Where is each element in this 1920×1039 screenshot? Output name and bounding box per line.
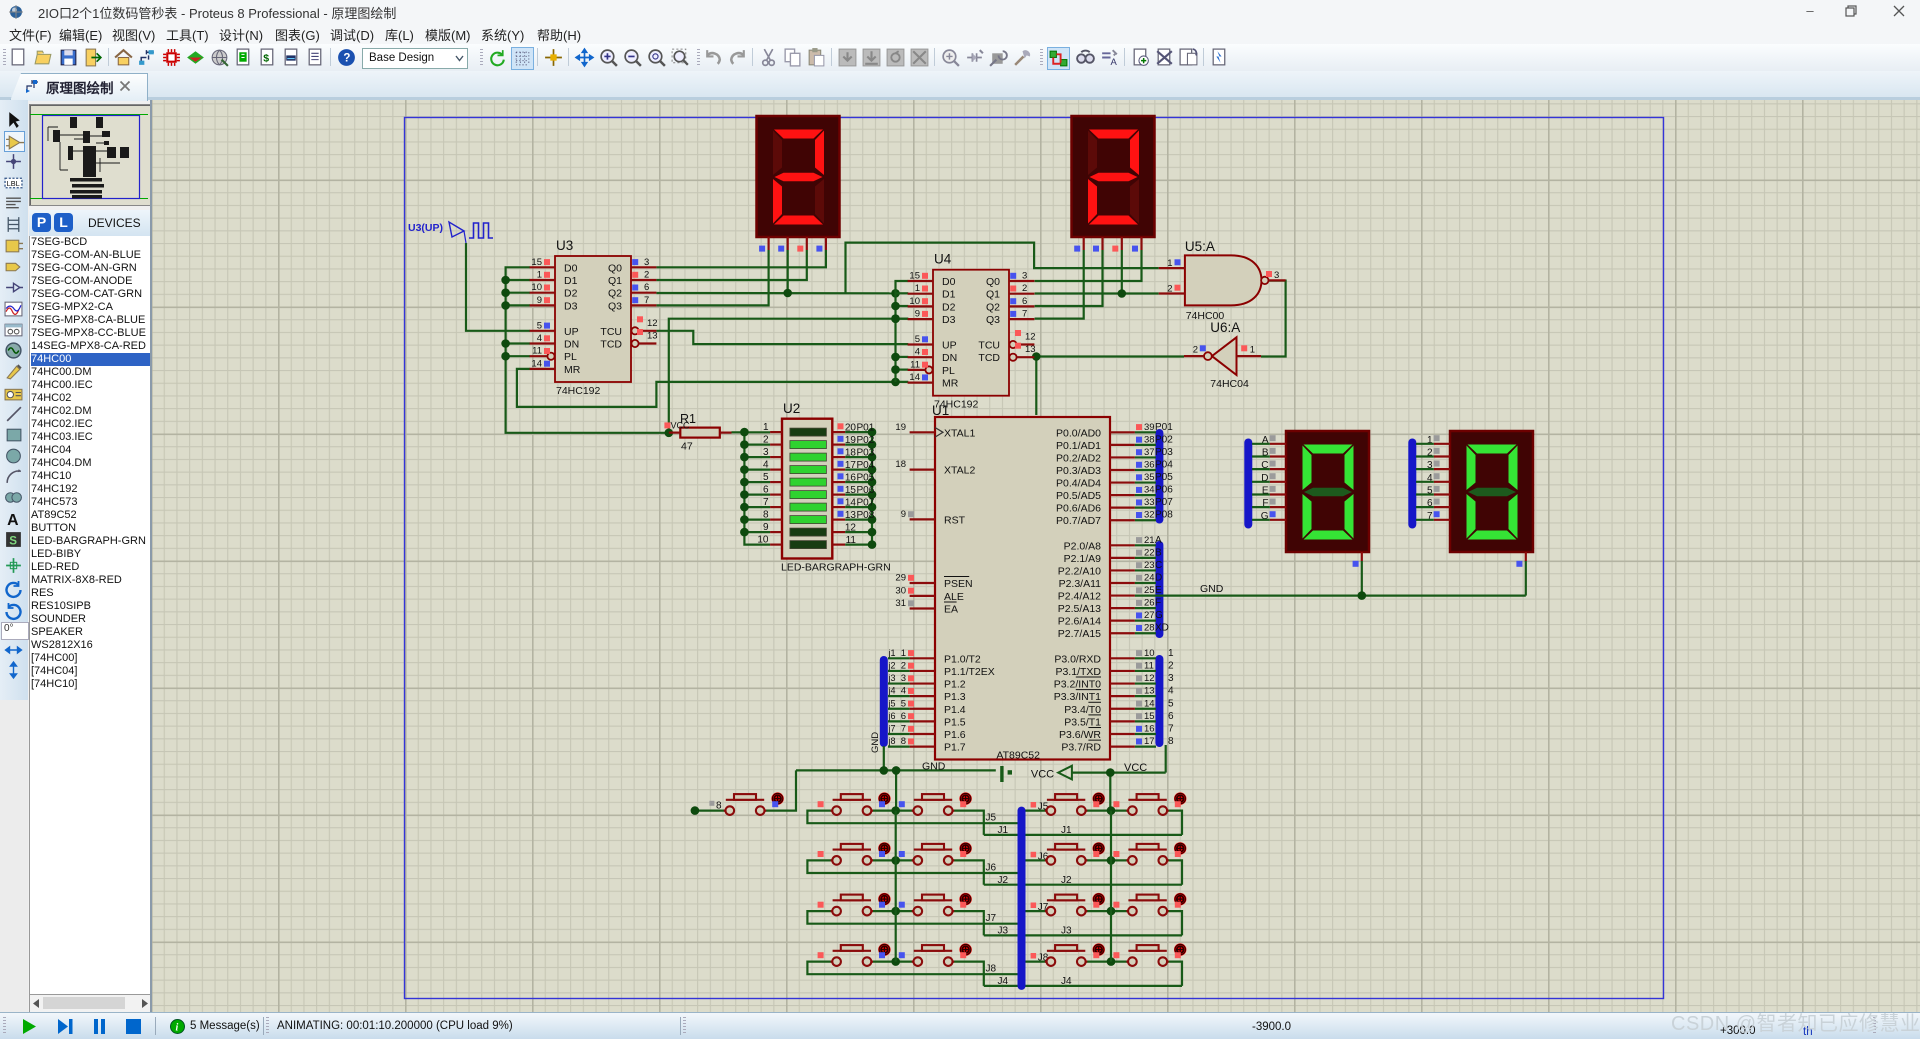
svg-text:E: E (1155, 585, 1162, 596)
wire (896, 281, 909, 382)
svg-text:C: C (1155, 560, 1162, 571)
svg-text:P07: P07 (857, 498, 875, 509)
svg-text:74HC192: 74HC192 (556, 385, 601, 397)
wire (695, 809, 726, 811)
svg-text:P2.0/A8: P2.0/A8 (1064, 540, 1102, 552)
svg-text:7: 7 (901, 724, 906, 735)
wire (984, 985, 1182, 987)
wire (807, 811, 1018, 824)
svg-text:EA: EA (944, 604, 958, 616)
svg-text:12: 12 (1144, 673, 1155, 684)
node labels P01-P08 (838, 423, 875, 546)
svg-text:14: 14 (909, 372, 920, 383)
svg-text:2: 2 (1167, 284, 1172, 295)
junction (1107, 856, 1116, 865)
7-segment display red 1 (757, 116, 840, 252)
wire (764, 746, 996, 811)
svg-text:D: D (1155, 572, 1162, 583)
svg-text:J3: J3 (1061, 926, 1072, 937)
svg-text:8: 8 (716, 801, 722, 812)
svg-text:4: 4 (763, 460, 769, 471)
power flag VCC (R1) (664, 421, 690, 431)
svg-text:J4: J4 (1061, 976, 1072, 987)
7-segment display green 2 (1434, 431, 1533, 567)
svg-text:35: 35 (1144, 472, 1155, 483)
svg-text:TCU: TCU (600, 326, 622, 338)
wire (656, 250, 806, 280)
wire (732, 432, 771, 544)
svg-text:j8: j8 (888, 736, 896, 746)
svg-text:D3: D3 (564, 300, 578, 312)
wire (517, 369, 908, 407)
svg-text:19: 19 (845, 435, 857, 446)
svg-text:P01: P01 (1155, 422, 1173, 433)
svg-text:3: 3 (1274, 270, 1279, 281)
push button (1113, 792, 1186, 815)
svg-text:A: A (1155, 535, 1162, 546)
wire (656, 331, 908, 344)
net label J8 (986, 964, 997, 975)
sheet border (405, 118, 1664, 999)
svg-text:GND: GND (1200, 583, 1224, 595)
node labels 1-7 (1427, 435, 1440, 522)
svg-text:U1: U1 (932, 403, 949, 418)
wire (1035, 357, 1184, 416)
svg-text:J7: J7 (986, 913, 997, 924)
junction dots (868, 428, 877, 549)
junction (691, 806, 700, 815)
wire (1168, 811, 1182, 835)
svg-text:12: 12 (1025, 332, 1036, 343)
svg-text:27: 27 (1144, 610, 1155, 621)
svg-text:13: 13 (1025, 344, 1036, 355)
svg-text:29: 29 (895, 573, 906, 584)
svg-text:1: 1 (1168, 648, 1174, 659)
net label J7 (986, 913, 997, 924)
svg-text:5: 5 (1168, 698, 1174, 709)
svg-text:UP: UP (942, 340, 957, 352)
svg-text:1: 1 (901, 648, 906, 659)
svg-text:38: 38 (1144, 434, 1155, 445)
svg-text:j1: j1 (888, 648, 896, 658)
svg-text:37: 37 (1144, 447, 1155, 458)
svg-text:14: 14 (531, 358, 542, 369)
generator U3(UP) (408, 222, 493, 243)
svg-text:7: 7 (1022, 309, 1027, 320)
svg-text:1: 1 (763, 422, 769, 433)
wire (1035, 250, 1103, 306)
svg-text:30: 30 (895, 585, 906, 596)
svg-text:P0.3/AD3: P0.3/AD3 (1056, 465, 1101, 477)
wire (1135, 561, 1526, 596)
svg-text:D0: D0 (942, 276, 956, 288)
mcu U1 AT89C52 (888, 403, 1143, 762)
wire (656, 250, 895, 293)
svg-text:F: F (1155, 598, 1161, 609)
net label J6 (1031, 851, 1049, 862)
svg-text:P03: P03 (857, 448, 875, 459)
svg-text:P3.2/INT0: P3.2/INT0 (1054, 679, 1101, 691)
svg-text:P2.3/A11: P2.3/A11 (1059, 578, 1102, 590)
wire (984, 884, 1182, 886)
svg-text:j5: j5 (888, 698, 896, 708)
svg-text:P0.4/AD4: P0.4/AD4 (1056, 478, 1101, 490)
wire (1168, 911, 1182, 935)
svg-text:G: G (1155, 610, 1163, 621)
counter U3 (530, 238, 658, 397)
svg-text:j2: j2 (888, 660, 896, 670)
wire (1086, 809, 1128, 811)
push button (1045, 842, 1105, 865)
svg-text:5: 5 (537, 320, 542, 331)
7-segment display red 2 (1072, 116, 1155, 252)
svg-text:P04: P04 (1155, 459, 1173, 470)
svg-text:P1.7: P1.7 (944, 742, 966, 754)
wire (1086, 960, 1128, 962)
svg-text:U3(UP): U3(UP) (408, 222, 443, 234)
svg-text:J4: J4 (998, 976, 1009, 987)
svg-text:D2: D2 (564, 288, 578, 300)
svg-text:Q1: Q1 (608, 275, 622, 287)
svg-text:1: 1 (1250, 345, 1255, 356)
svg-text:j4: j4 (888, 686, 896, 696)
net label GND (922, 761, 946, 773)
net label J3 (998, 926, 1073, 937)
svg-text:AT89C52: AT89C52 (996, 750, 1040, 762)
svg-text:9: 9 (537, 295, 542, 306)
svg-text:15: 15 (845, 485, 857, 496)
svg-text:2: 2 (1193, 345, 1198, 356)
junction (665, 314, 900, 437)
svg-text:J6: J6 (986, 862, 997, 873)
svg-text:GND: GND (922, 761, 946, 773)
svg-text:j7: j7 (888, 724, 896, 734)
svg-text:28: 28 (1144, 623, 1155, 634)
net label J8 (1031, 953, 1049, 964)
svg-text:2: 2 (763, 435, 769, 446)
svg-text:P3.1/TXD: P3.1/TXD (1055, 666, 1101, 678)
junction dots (740, 428, 749, 537)
push button (1113, 943, 1186, 966)
svg-text:6: 6 (1168, 711, 1174, 722)
svg-text:XD: XD (1155, 623, 1169, 634)
net label VCC (1124, 762, 1147, 774)
svg-text:17: 17 (845, 460, 857, 471)
svg-text:J5: J5 (986, 813, 997, 824)
wire (953, 962, 984, 986)
push button (899, 842, 972, 865)
wire (1025, 910, 1047, 912)
svg-text:10: 10 (1144, 648, 1155, 659)
svg-text:Q2: Q2 (608, 288, 622, 300)
svg-text:i: i (176, 1023, 179, 1034)
svg-text:13: 13 (845, 510, 857, 521)
wire (845, 432, 872, 544)
svg-text:XTAL1: XTAL1 (944, 427, 975, 439)
svg-text:B: B (1155, 547, 1162, 558)
svg-text:LED-BARGRAPH-GRN: LED-BARGRAPH-GRN (781, 562, 891, 574)
svg-text:D2: D2 (942, 301, 956, 313)
svg-text:MR: MR (942, 378, 959, 390)
push button (818, 893, 891, 916)
svg-text:11: 11 (846, 535, 857, 546)
svg-text:P0.7/AD7: P0.7/AD7 (1056, 515, 1101, 527)
junction (891, 907, 900, 916)
junction (891, 957, 900, 966)
svg-text:P08: P08 (857, 510, 875, 521)
wire (1135, 545, 1156, 633)
svg-text:PL: PL (942, 365, 955, 377)
svg-text:j6: j6 (888, 711, 896, 721)
svg-text:MR: MR (564, 364, 581, 376)
push button (899, 943, 972, 966)
junction (1358, 591, 1367, 600)
inverter U6:A (1184, 320, 1261, 390)
svg-text:VCC: VCC (1031, 769, 1054, 781)
net label J2 (998, 875, 1073, 886)
svg-text:P05: P05 (1155, 472, 1173, 483)
push button (899, 792, 972, 815)
svg-text:Q3: Q3 (986, 314, 1000, 326)
svg-text:P3.5/T1: P3.5/T1 (1064, 716, 1101, 728)
wire (1252, 444, 1270, 520)
svg-text:Q1: Q1 (986, 289, 1000, 301)
net label J6 (986, 862, 997, 873)
net label J4 (998, 976, 1073, 987)
junction (1107, 907, 1116, 916)
push button (818, 842, 891, 865)
svg-text:P2.6/A14: P2.6/A14 (1058, 616, 1101, 628)
svg-text:19: 19 (895, 422, 906, 433)
svg-text:U4: U4 (934, 252, 952, 267)
svg-text:11: 11 (532, 346, 542, 357)
junction (1106, 768, 1115, 777)
push button (818, 943, 891, 966)
svg-text:36: 36 (1144, 459, 1155, 470)
wire (1025, 960, 1047, 962)
svg-text:7: 7 (644, 295, 649, 306)
push button (818, 792, 891, 815)
wire (1086, 910, 1128, 912)
svg-text:1: 1 (537, 270, 542, 281)
svg-text:P3.3/INT1: P3.3/INT1 (1054, 691, 1101, 703)
svg-text:J8: J8 (986, 964, 997, 975)
svg-text:14: 14 (845, 498, 857, 509)
push button (899, 893, 972, 916)
junction dots (880, 766, 901, 775)
node labels A-G (1261, 435, 1276, 522)
svg-text:J1: J1 (1061, 825, 1072, 836)
svg-text:74HC04: 74HC04 (1210, 378, 1249, 390)
push button (1113, 893, 1186, 916)
svg-text:3: 3 (901, 673, 906, 684)
junction (1032, 352, 1041, 361)
wire (871, 859, 913, 861)
net label J7 (1031, 902, 1049, 913)
svg-text:4: 4 (915, 347, 920, 358)
bus P0 (1155, 433, 1163, 520)
svg-text:11: 11 (910, 359, 920, 370)
svg-text:XTAL2: XTAL2 (944, 465, 975, 477)
svg-text:DN: DN (942, 352, 957, 364)
svg-text:U5:A: U5:A (1185, 239, 1215, 254)
ground symbol (battery cell) (1000, 766, 1012, 782)
svg-text:TCU: TCU (978, 340, 1000, 352)
svg-text:D1: D1 (564, 275, 578, 287)
svg-text:P3.7/RD: P3.7/RD (1061, 742, 1101, 754)
junction (891, 378, 900, 387)
svg-text:3: 3 (644, 257, 649, 268)
bus P3 (1155, 659, 1163, 743)
svg-text:VCC: VCC (671, 421, 691, 431)
wire (953, 911, 984, 935)
junction (1107, 806, 1116, 815)
svg-text:3: 3 (1022, 271, 1027, 282)
svg-text:15: 15 (1144, 711, 1155, 722)
pin labels (1144, 422, 1174, 747)
svg-text:39: 39 (1144, 422, 1155, 433)
svg-text:P02: P02 (857, 435, 875, 446)
svg-text:7: 7 (1168, 724, 1174, 735)
svg-text:12: 12 (845, 523, 857, 534)
nand gate U5:A (1159, 239, 1286, 322)
svg-text:P08: P08 (1155, 510, 1173, 521)
svg-text:25: 25 (1144, 585, 1155, 596)
svg-text:PSEN: PSEN (944, 578, 973, 590)
svg-text:1: 1 (1167, 258, 1172, 269)
wire (846, 243, 1159, 293)
svg-text:U3: U3 (556, 238, 573, 253)
svg-text:2: 2 (1022, 283, 1027, 294)
svg-text:17: 17 (1144, 736, 1155, 747)
svg-text:PL: PL (564, 351, 577, 363)
wire (1261, 281, 1286, 357)
svg-text:P2.2/A10: P2.2/A10 (1058, 565, 1101, 577)
svg-text:8: 8 (901, 736, 906, 747)
power terminal VCC (1031, 766, 1072, 781)
svg-text:11: 11 (1144, 660, 1154, 671)
push button (row1 standalone) (724, 792, 784, 815)
svg-text:P1.4: P1.4 (944, 704, 966, 716)
wire (669, 319, 909, 433)
svg-text:10: 10 (909, 296, 920, 307)
svg-text:Q0: Q0 (608, 262, 622, 274)
svg-text:D3: D3 (942, 314, 956, 326)
svg-text:14: 14 (1144, 698, 1155, 709)
wire (871, 809, 913, 811)
resistor R1 (669, 412, 732, 453)
svg-text:2: 2 (644, 270, 649, 281)
svg-text:P02: P02 (1155, 434, 1173, 445)
junction dots (891, 302, 900, 374)
svg-text:1: 1 (915, 283, 920, 294)
svg-text:j3: j3 (888, 673, 896, 683)
push button (1113, 842, 1186, 865)
svg-text:12: 12 (647, 318, 658, 329)
junction (891, 806, 900, 815)
svg-text:2: 2 (1168, 660, 1174, 671)
svg-text:9: 9 (763, 522, 769, 533)
svg-text:2: 2 (901, 660, 906, 671)
wire (1168, 962, 1182, 986)
svg-text:D0: D0 (564, 262, 578, 274)
junction dots (501, 276, 510, 361)
svg-text:16: 16 (1144, 724, 1155, 735)
junction (891, 856, 900, 865)
svg-text:P1.1/T2EX: P1.1/T2EX (944, 666, 995, 678)
wire (1035, 250, 1084, 319)
svg-text:VCC: VCC (1124, 762, 1147, 774)
wire (1168, 860, 1182, 884)
svg-text:6: 6 (763, 485, 769, 496)
svg-text:Q0: Q0 (986, 276, 1000, 288)
7-segment display green 1 (1270, 431, 1369, 567)
svg-text:P07: P07 (1155, 497, 1173, 508)
svg-text:P03: P03 (1155, 447, 1173, 458)
wire (656, 250, 768, 305)
svg-text:31: 31 (895, 598, 906, 609)
svg-text:P2.4/A12: P2.4/A12 (1058, 591, 1101, 603)
svg-text:P0.6/AD6: P0.6/AD6 (1056, 503, 1101, 515)
wire (807, 911, 1018, 924)
svg-text:J1: J1 (998, 825, 1009, 836)
wire (1025, 809, 1047, 811)
svg-text:33: 33 (1144, 497, 1155, 508)
svg-text:P3.0/RXD: P3.0/RXD (1054, 653, 1101, 665)
push button (1045, 792, 1105, 815)
svg-text:9: 9 (901, 509, 906, 520)
svg-text:J3: J3 (998, 926, 1009, 937)
svg-text:6: 6 (1022, 296, 1027, 307)
svg-text:U6:A: U6:A (1210, 320, 1240, 335)
svg-text:P04: P04 (857, 460, 875, 471)
svg-text:P3.6/WR: P3.6/WR (1059, 729, 1101, 741)
svg-text:P2.7/A15: P2.7/A15 (1058, 628, 1101, 640)
svg-text:P0.0/AD0: P0.0/AD0 (1056, 427, 1101, 439)
svg-text:5: 5 (901, 698, 906, 709)
svg-text:TCD: TCD (978, 352, 1000, 364)
wire (1035, 250, 1142, 281)
wire (506, 267, 669, 433)
bus P2 (1155, 545, 1163, 634)
junction (783, 289, 899, 298)
svg-text:D1: D1 (942, 289, 956, 301)
svg-text:Q3: Q3 (608, 300, 622, 312)
wire (1072, 745, 1166, 811)
wire (807, 860, 1018, 873)
wire (984, 934, 1182, 936)
net label J5 (986, 813, 997, 824)
svg-text:15: 15 (909, 271, 920, 282)
svg-text:13: 13 (1144, 686, 1155, 697)
svg-text:22: 22 (1144, 547, 1155, 558)
junction (1118, 289, 1127, 298)
net label 8 (709, 801, 722, 812)
wire (1135, 432, 1156, 520)
svg-text:P1.2: P1.2 (944, 679, 966, 691)
svg-text:8: 8 (1168, 736, 1174, 747)
counter U4 (908, 252, 1036, 411)
svg-text:P0.2/AD2: P0.2/AD2 (1056, 452, 1101, 464)
svg-text:J2: J2 (1061, 875, 1072, 886)
svg-text:32: 32 (1144, 510, 1155, 521)
net label J1 (998, 825, 1073, 836)
wire (953, 811, 984, 835)
svg-text:8: 8 (763, 510, 769, 521)
svg-text:26: 26 (1144, 598, 1155, 609)
svg-text:GND: GND (870, 732, 881, 753)
svg-text:P0.5/AD5: P0.5/AD5 (1056, 490, 1101, 502)
